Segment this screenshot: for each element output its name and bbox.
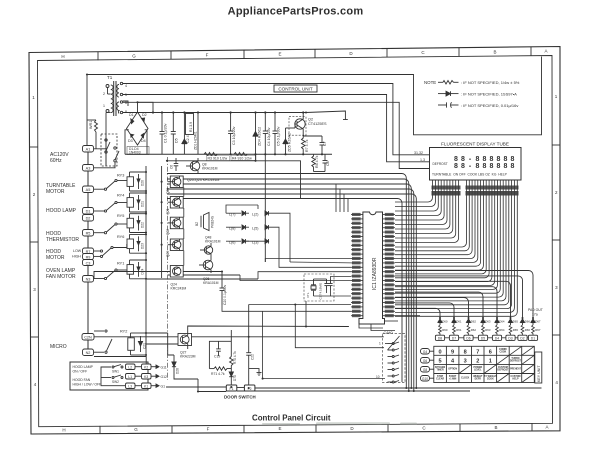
svg-text:DOOR SWITCH: DOOR SWITCH	[224, 395, 256, 400]
svg-text:9: 9	[451, 349, 454, 355]
svg-text:H: H	[61, 54, 64, 59]
svg-text:R61: R61	[456, 328, 462, 332]
terminal R7	[83, 248, 94, 254]
svg-text:MOTOR: MOTOR	[46, 255, 65, 261]
svg-text:MOTOR: MOTOR	[46, 189, 65, 195]
svg-text:G1: G1	[161, 384, 166, 388]
svg-text:RY1: RY1	[117, 262, 124, 266]
svg-text:6: 6	[489, 349, 492, 355]
wires transistor chain	[183, 188, 185, 266]
resistor R7 4.7k	[302, 136, 306, 154]
svg-text:R8 4.7k: R8 4.7k	[315, 155, 319, 168]
label HOOD LAMP	[46, 208, 77, 214]
svg-text:HIGH: HIGH	[72, 255, 81, 259]
label DOOR SWITCH	[224, 395, 256, 400]
terminal L2	[126, 364, 136, 370]
border zone letters top	[61, 49, 547, 59]
diode D70	[229, 370, 233, 385]
svg-text:A3: A3	[86, 167, 91, 171]
border zone numbers right	[555, 94, 559, 385]
diode labels	[442, 320, 541, 324]
svg-text:D65: D65	[513, 320, 519, 324]
relay RY3	[94, 172, 146, 191]
svg-text:D21: D21	[141, 201, 145, 207]
label TURNTABLE MOTOR	[46, 183, 76, 195]
svg-text:DEFR: DEFR	[475, 379, 482, 381]
ground stub	[249, 369, 262, 376]
IC1 right pins	[383, 215, 396, 316]
svg-text:D3: D3	[508, 336, 512, 340]
resistor R61 col	[453, 325, 456, 335]
svg-text:E: E	[278, 52, 281, 57]
wire A3 to switch	[94, 162, 115, 168]
svg-text:D60: D60	[442, 320, 448, 324]
svg-text:8: 8	[497, 156, 501, 163]
bridge rectifier D1-D4	[127, 112, 149, 145]
svg-text:N2: N2	[86, 351, 91, 355]
zener ZD5 HZ6A2	[283, 128, 295, 154]
capacitor C3 10u/20v	[228, 113, 233, 155]
svg-text:D63: D63	[485, 320, 491, 324]
loop box C19/R71	[209, 341, 231, 368]
junction dots lower rail	[230, 153, 324, 155]
transistor Q22	[166, 217, 183, 235]
svg-text:Q22: Q22	[166, 229, 170, 235]
svg-text:BZ: BZ	[195, 222, 199, 226]
svg-text:5: 5	[439, 358, 442, 364]
svg-text:N3: N3	[86, 278, 91, 282]
svg-text:C6: C6	[170, 165, 174, 169]
svg-text:IC1 IZA893DR: IC1 IZA893DR	[372, 257, 378, 290]
LED L3	[252, 239, 269, 245]
svg-text:D1: D1	[86, 210, 91, 214]
display pin label stripe left	[432, 186, 461, 196]
svg-text:ZD4 HZ6C2: ZD4 HZ6C2	[258, 127, 262, 146]
wire N2 to hood K2	[94, 357, 146, 365]
svg-text:PKB24S: PKB24S	[211, 216, 215, 228]
resistor R64 col	[496, 325, 499, 335]
svg-text:8: 8	[504, 163, 508, 170]
wires bundle to IC top	[336, 184, 348, 212]
svg-text:R1 3.9: R1 3.9	[189, 122, 193, 132]
svg-text:A: A	[545, 425, 548, 430]
zener ZD1	[194, 131, 198, 150]
terminal R5	[83, 230, 94, 237]
contact	[105, 330, 112, 353]
contact feed wires	[263, 336, 400, 379]
diode D1	[131, 119, 134, 124]
svg-text:R5: R5	[86, 232, 91, 236]
border frame outer	[29, 47, 560, 435]
switch SW2	[112, 375, 123, 379]
IC1 body	[359, 212, 385, 324]
svg-text:RY2: RY2	[120, 330, 127, 334]
svg-text:D28: D28	[176, 368, 180, 374]
diode D65 col	[508, 318, 512, 325]
capacitor C6	[174, 158, 179, 171]
svg-text:+1 MIN: +1 MIN	[449, 379, 457, 381]
resistor R65 col	[509, 325, 512, 335]
resistor R60 col	[439, 325, 442, 335]
relay RY6	[94, 234, 146, 257]
relay RY4	[94, 193, 146, 212]
wire N2 to RY2	[94, 331, 104, 352]
scan smudges	[262, 422, 417, 424]
wires transformer secondaries to rectifier	[123, 101, 147, 113]
svg-text:D4: D4	[495, 336, 499, 340]
crystal caps	[324, 279, 332, 290]
display pin wires left group	[395, 180, 459, 243]
keypad left connectors G	[421, 349, 434, 382]
resistor WR1	[95, 120, 98, 132]
capacitor C7	[303, 136, 324, 154]
svg-text:F: F	[207, 427, 210, 432]
zener ZD4 HZ6C2	[253, 113, 258, 155]
svg-text:T1: T1	[107, 75, 113, 80]
svg-text:RY4: RY4	[117, 194, 124, 198]
label 31,32	[414, 151, 423, 155]
LED L5	[252, 225, 269, 231]
svg-text:4: 4	[125, 84, 127, 88]
svg-text:Q21: Q21	[166, 208, 170, 214]
terminal C2N	[82, 334, 94, 341]
wire bridge left loop	[125, 130, 129, 155]
wire top bus	[87, 75, 306, 146]
svg-text:NOTE: NOTE	[424, 80, 436, 85]
diode D28	[172, 355, 180, 375]
svg-text:1: 1	[379, 342, 381, 346]
svg-text:G11: G11	[161, 365, 167, 369]
label DEFROST	[433, 162, 448, 166]
svg-text:E: E	[278, 426, 281, 431]
wire L2	[123, 84, 431, 155]
capacitor C4 10u/25v	[263, 113, 268, 155]
display pin label stripe right	[466, 186, 519, 196]
svg-text:C21: C21	[143, 343, 147, 349]
capacitor C22	[246, 305, 251, 386]
svg-text:R71 4.7k: R71 4.7k	[211, 372, 225, 376]
label LOW / HIGH	[72, 249, 82, 259]
wires q27 region	[168, 326, 349, 379]
svg-text:D1: D1	[129, 113, 134, 117]
wire C4 extension	[256, 154, 266, 262]
svg-text:KRA223M: KRA223M	[180, 355, 196, 359]
svg-text:CT4125ES: CT4125ES	[308, 122, 327, 126]
svg-text:: IF NOT SPECIFIED, 1SS97•A: : IF NOT SPECIFIED, 1SS97•A	[461, 91, 517, 96]
crystal wires to IC	[295, 277, 384, 348]
wire left vertical bus	[87, 148, 89, 355]
capacitor C8	[314, 154, 328, 171]
wire bridge right to vrail	[145, 130, 147, 155]
relay RY1	[94, 260, 146, 280]
svg-text:R67: R67	[535, 328, 541, 332]
buzzer BZ	[195, 213, 215, 231]
svg-text:CLOCK: CLOCK	[461, 377, 470, 379]
border zone letters bottom	[62, 425, 548, 433]
resistor R67 col	[532, 325, 535, 335]
svg-text:KRA101M: KRA101M	[203, 281, 219, 285]
svg-text:KRC243M: KRC243M	[171, 287, 187, 291]
svg-text:KEY UNIT: KEY UNIT	[537, 365, 541, 382]
relay RY2	[105, 330, 147, 356]
svg-text:D2: D2	[520, 336, 524, 340]
svg-text:CLEAR: CLEAR	[436, 378, 444, 381]
switch LVSW dashed box	[101, 134, 117, 166]
svg-text:1,3: 1,3	[420, 158, 425, 162]
svg-text:SW2: SW2	[112, 380, 119, 384]
border zone numbers left	[32, 95, 37, 387]
svg-text:D8: D8	[438, 336, 442, 340]
svg-text:C/M0: C/M0	[384, 331, 393, 335]
watermark header AppliancePartsPros.com	[228, 5, 364, 17]
wire RY2 to Q27	[146, 333, 178, 344]
svg-text:G12: G12	[161, 375, 168, 379]
note capacitor symbol	[438, 102, 459, 108]
svg-text:8: 8	[490, 163, 494, 170]
svg-text:2: 2	[476, 358, 479, 364]
resistor R66 col	[521, 325, 524, 335]
svg-text:D67: D67	[535, 320, 541, 324]
svg-text:D62: D62	[471, 320, 477, 324]
svg-text:F: F	[206, 53, 209, 58]
terminal A3	[83, 165, 94, 172]
svg-text:6: 6	[125, 101, 127, 105]
svg-text:AppliancePartsPros.com: AppliancePartsPros.com	[228, 5, 364, 17]
svg-text:K3: K3	[144, 375, 148, 379]
wires IC bottom to C/M0	[359, 316, 420, 331]
keypad diagonal cells	[459, 346, 534, 382]
wire v198	[197, 113, 199, 155]
transistor Q23	[166, 239, 183, 257]
svg-text:A1: A1	[86, 148, 91, 152]
resistor R1 box	[186, 114, 194, 135]
svg-text:8: 8	[125, 110, 127, 114]
svg-text:R62: R62	[471, 328, 477, 332]
junction dots misc	[86, 73, 534, 392]
terminal L3	[126, 383, 136, 389]
svg-text:D5: D5	[175, 138, 179, 143]
diode D64 col	[495, 318, 499, 325]
secondary winding 1	[117, 82, 123, 97]
capacitor D5	[171, 113, 176, 155]
svg-text:WR1: WR1	[89, 121, 93, 129]
svg-text:D5: D5	[481, 336, 485, 340]
svg-text:•: •	[469, 157, 471, 163]
svg-text:•: •	[469, 164, 471, 170]
wire L4	[123, 102, 431, 168]
label 1,3	[420, 158, 425, 162]
resistor R62 col	[467, 325, 470, 335]
label FLUORESCENT DISPLAY TUBE	[441, 142, 509, 147]
svg-text:Control Panel Circuit: Control Panel Circuit	[252, 413, 331, 422]
svg-text:TIMER: TIMER	[437, 370, 444, 372]
hood internal wires	[101, 367, 126, 386]
svg-text:A: A	[544, 49, 547, 54]
svg-text:R65: R65	[513, 328, 519, 332]
svg-text:LOW: LOW	[73, 249, 82, 253]
keypad cell texts	[435, 349, 522, 381]
resistor R8 4.7k	[312, 154, 316, 171]
svg-text:COOK: COOK	[487, 379, 494, 381]
svg-text:8: 8	[476, 163, 480, 170]
svg-text:R4 910 1/2w: R4 910 1/2w	[232, 156, 252, 160]
svg-text:R70 4.7k: R70 4.7k	[233, 351, 237, 364]
terminal D2	[83, 215, 94, 222]
wire L3	[123, 95, 431, 162]
svg-text:FAN MOTOR: FAN MOTOR	[46, 274, 76, 280]
note diode symbol	[438, 91, 459, 96]
svg-text:K2: K2	[144, 365, 148, 369]
border frame inner	[38, 56, 553, 427]
arrows G11 G12 G1	[151, 365, 167, 388]
svg-text:C19: C19	[214, 355, 220, 359]
note resistor symbol	[438, 81, 459, 85]
secondary winding 2	[117, 101, 123, 114]
svg-text:8: 8	[504, 156, 508, 163]
svg-text:2: 2	[103, 92, 105, 96]
terminal L1	[126, 374, 136, 380]
svg-text:60Hz: 60Hz	[50, 158, 62, 164]
svg-text:B: B	[494, 425, 497, 430]
diode D61 col	[452, 318, 456, 325]
resistor R71	[214, 367, 231, 371]
LED L7	[229, 211, 246, 217]
svg-text:3: 3	[464, 358, 467, 364]
wire A1 to switch	[94, 140, 106, 149]
svg-text:PAD OUT: PAD OUT	[528, 308, 543, 312]
svg-text:D22: D22	[141, 222, 145, 228]
svg-text:ON / OFF: ON / OFF	[73, 369, 88, 373]
relay bus vertical pair	[146, 166, 162, 343]
svg-text:1: 1	[103, 104, 105, 108]
svg-text:D1: D1	[531, 336, 535, 340]
display digits row 2	[454, 163, 515, 170]
terminal F2	[244, 385, 255, 391]
label HOOD MOTOR	[46, 249, 65, 261]
svg-text:Q20-Q23 KRC491M: Q20-Q23 KRC491M	[187, 178, 219, 182]
capacitor C19	[218, 341, 220, 349]
terminal K3	[135, 374, 151, 380]
svg-text:C7: C7	[323, 141, 327, 146]
rail gnd bottom	[125, 153, 332, 155]
svg-text:KRA101M: KRA101M	[205, 240, 221, 244]
svg-text:R7 4.7k: R7 4.7k	[305, 139, 309, 152]
svg-text:FLUORESCENT DISPLAY TUBE: FLUORESCENT DISPLAY TUBE	[441, 142, 509, 147]
terminal D1	[83, 208, 94, 215]
svg-text:1: 1	[489, 358, 492, 364]
diode D2	[142, 118, 145, 122]
svg-text:RY6: RY6	[117, 235, 124, 239]
svg-text:RY3: RY3	[117, 174, 124, 178]
svg-text:HELP: HELP	[512, 379, 519, 381]
svg-text:MICRO: MICRO	[50, 344, 67, 350]
svg-text:8: 8	[461, 163, 465, 170]
LED L2	[252, 211, 269, 217]
svg-text:R63: R63	[485, 328, 491, 332]
svg-text:D61: D61	[456, 320, 462, 324]
display pin wires right group	[395, 180, 517, 316]
switch SW1	[112, 365, 123, 369]
transistor Q8 KRA101M	[170, 158, 218, 174]
transistor Q2 CT4125ES	[289, 113, 306, 137]
wire bridge top jog	[138, 102, 154, 112]
diode D63 col	[481, 318, 485, 325]
label D1-D4 1N4003	[127, 147, 149, 155]
svg-text:D3: D3	[128, 139, 133, 143]
display tube box	[430, 148, 522, 181]
svg-text:XTL: XTL	[306, 292, 310, 298]
svg-text:G: G	[132, 53, 136, 58]
rail 2nd	[167, 161, 301, 199]
crystal symbol	[311, 279, 316, 296]
border zone tick marks left	[30, 147, 39, 337]
svg-text:PREHEAT: PREHEAT	[510, 367, 521, 370]
svg-text:KRA101M: KRA101M	[202, 167, 218, 171]
wire L1 top bus to right drop	[306, 57, 542, 135]
IC1 right pin labels stripe	[385, 213, 394, 317]
diode D67 col	[531, 318, 535, 325]
dash-dot control unit boundary	[167, 157, 169, 380]
svg-text:8: 8	[511, 163, 515, 170]
svg-text:17a: 17a	[532, 313, 538, 317]
terminal K2	[135, 364, 151, 370]
svg-text:8: 8	[454, 156, 458, 163]
svg-text:G6: G6	[423, 359, 427, 363]
svg-text:HIGH / LOW / OFF: HIGH / LOW / OFF	[73, 382, 102, 386]
resistor R70 vertical	[230, 330, 233, 370]
svg-text:C5 0.1μ/30v: C5 0.1μ/30v	[277, 126, 281, 146]
control unit label box	[274, 85, 317, 92]
label MICRO	[50, 344, 67, 350]
svg-text:8: 8	[490, 156, 494, 163]
diode D3	[131, 134, 134, 137]
resistor R4 910 1/2w	[234, 153, 247, 157]
svg-text:0: 0	[439, 349, 442, 355]
terminal A1	[83, 146, 94, 153]
transistor Q26 KRA101M	[199, 257, 219, 285]
svg-text:H: H	[62, 428, 65, 433]
IC1 left pin labels stripe	[352, 213, 361, 317]
svg-text:D2: D2	[86, 217, 91, 221]
diode D60 col	[438, 318, 442, 325]
border zone tick marks bottom	[100, 423, 532, 433]
display digits row 1	[454, 156, 515, 163]
label AC120V 60Hz	[50, 152, 69, 164]
bottom rails	[166, 379, 542, 392]
wires N3 row	[94, 272, 258, 280]
svg-text:Q20: Q20	[166, 188, 170, 194]
LED L8	[229, 225, 246, 231]
svg-text:R66: R66	[525, 328, 531, 332]
svg-text:D4: D4	[141, 139, 146, 143]
terminal A5	[83, 186, 94, 193]
border zone tick marks top	[98, 47, 531, 60]
svg-text:: IF NOT SPECIFIED, 0.01μ/16v: : IF NOT SPECIFIED, 0.01μ/16v	[461, 103, 518, 108]
wire C2N rail	[94, 336, 384, 338]
capacitor C20	[220, 272, 225, 306]
pin labels secondary	[103, 84, 127, 114]
terminal N2	[83, 349, 94, 356]
label TURNTABLE ON OFF COOK LBS OZ KG HELP	[432, 173, 508, 177]
label PAD OUT	[528, 308, 543, 317]
terminal K1	[135, 383, 151, 389]
svg-text:START: START	[449, 375, 457, 378]
svg-text:D6: D6	[466, 336, 470, 340]
keypad digits row1	[439, 349, 492, 355]
svg-text:D70: D70	[233, 375, 237, 381]
svg-text:L(2): L(2)	[252, 213, 258, 217]
svg-text:8: 8	[483, 156, 487, 163]
